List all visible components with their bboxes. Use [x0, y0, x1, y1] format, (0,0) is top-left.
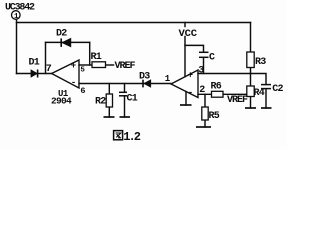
wire: pin6 horizontal to second op-amp	[79, 83, 171, 85]
ground (R2)	[104, 116, 115, 118]
svg-text:R6: R6	[211, 81, 222, 92]
svg-text:C1: C1	[127, 94, 138, 105]
wire: C1 branch	[124, 84, 126, 93]
wire: R2 branch	[108, 84, 110, 95]
svg-text:R2: R2	[95, 97, 106, 108]
wire: R4 top lead	[250, 74, 252, 87]
svg-text:7: 7	[46, 64, 52, 75]
wire: R3 bottom lead	[250, 68, 252, 74]
svg-text:UC3842: UC3842	[5, 2, 35, 13]
op-amp U2 triangle	[171, 70, 198, 98]
svg-text:+: +	[71, 61, 76, 71]
wire: C2 bottom lead to ground	[265, 89, 267, 108]
resistor R3	[247, 52, 254, 68]
resistor R2	[106, 94, 112, 107]
ground (R5)	[196, 126, 211, 128]
ground (op-amp U2)	[180, 104, 192, 106]
op-amp U1 triangle	[52, 60, 79, 88]
svg-text:1: 1	[14, 13, 19, 21]
svg-text:VREF: VREF	[227, 95, 248, 106]
ground (R4)	[245, 107, 256, 109]
wire: feedback loop left vertical	[45, 42, 47, 73]
resistor R4	[247, 86, 254, 97]
svg-text:+: +	[188, 71, 193, 81]
wire: VCC stub and vertical	[184, 23, 186, 27]
svg-text:D2: D2	[56, 28, 67, 39]
wire: D1 horizontal into op-amp U1 apex	[17, 73, 52, 75]
svg-text:5: 5	[80, 66, 85, 74]
wire: C cap bottom lead to pin3 wire	[203, 58, 205, 74]
wire: pin5 to R1 to VREF	[79, 64, 92, 66]
svg-text:3: 3	[198, 66, 204, 77]
wire: op-amp U2 ground lead	[185, 92, 187, 105]
svg-text:2904: 2904	[51, 95, 72, 106]
svg-text:VCC: VCC	[179, 28, 198, 40]
wire: right column top vertical into R3	[250, 23, 252, 53]
svg-text:1: 1	[165, 74, 171, 84]
resistor R5	[202, 107, 208, 120]
svg-text:D3: D3	[139, 72, 150, 83]
caption 图1.2	[114, 131, 123, 140]
diode D2	[61, 38, 71, 47]
diode D1	[31, 70, 38, 78]
wire: tee to C2 branch	[251, 74, 267, 85]
wire: pin2 horizontal through R6 to R4	[198, 93, 247, 95]
svg-text:-: -	[188, 88, 193, 98]
svg-text:D1: D1	[29, 58, 40, 69]
wire: top rail from pin1 to right column	[17, 21, 251, 23]
diode D3	[143, 80, 151, 88]
wire: feedback loop right vertical down to R1 wire	[89, 42, 91, 65]
capacitor C1	[119, 91, 127, 93]
svg-text:1.2: 1.2	[123, 130, 140, 144]
svg-text:C2: C2	[272, 84, 283, 95]
svg-text:6: 6	[80, 86, 85, 96]
wire: feedback loop top horizontal	[46, 41, 90, 43]
svg-text:VREF: VREF	[115, 61, 136, 72]
capacitor C	[199, 51, 209, 53]
wire: left vertical from pin1 down to D1	[16, 23, 18, 74]
pin 1 terminal circle	[12, 11, 21, 20]
resistor R6	[212, 91, 224, 97]
capacitor C2	[261, 84, 271, 86]
svg-text:R5: R5	[209, 111, 220, 122]
svg-text:R1: R1	[91, 52, 102, 63]
svg-text:C: C	[209, 53, 215, 64]
wire: R4 bottom lead	[250, 97, 252, 109]
wire: pin3 horizontal to right column	[198, 73, 251, 75]
ground (C1)	[120, 116, 131, 118]
svg-text:-: -	[71, 78, 76, 88]
svg-text:2: 2	[199, 85, 205, 96]
ground (C2)	[261, 107, 272, 109]
wire: R5 branch	[204, 94, 206, 107]
svg-text:R3: R3	[255, 57, 266, 68]
resistor R1	[92, 62, 106, 68]
wire: C cap stub from VCC rail	[185, 45, 204, 52]
svg-text:R4: R4	[254, 88, 265, 99]
